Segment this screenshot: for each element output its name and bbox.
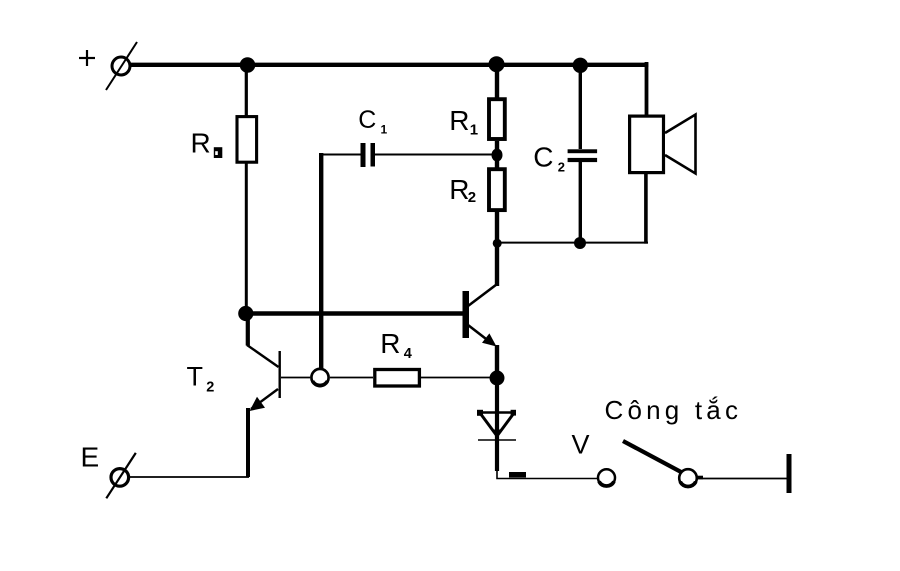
label R2 [449,174,476,206]
node junction bottom C2 [574,237,586,249]
diode D1 [477,410,516,440]
svg-text:2: 2 [558,160,565,175]
terminal end bar [787,454,792,493]
label C1 [358,106,387,136]
wire R4 right [421,377,492,379]
wire R4 left [330,377,373,379]
node junction top R3 [240,57,256,73]
svg-text:2: 2 [206,379,214,395]
wire R3 bottom to node [245,163,248,315]
node junction emitter T1 [490,371,505,386]
wire T1 collector [495,242,499,286]
terminal E circle [106,453,136,498]
wire T2 collector [246,313,250,346]
node junction base T1/T2/R3 [238,306,253,321]
wire speaker bottom [644,174,648,244]
label T2 [187,361,215,395]
wire diode through [495,378,499,471]
resistor R2 [489,169,505,210]
svg-text:T: T [187,361,204,391]
node junction top C2 [573,58,588,73]
svg-text:4: 4 [404,346,412,362]
svg-text:C: C [533,142,553,173]
label R1 [449,105,478,139]
resistor R3 [237,117,257,163]
capacitor C2 [568,149,598,162]
svg-text:2: 2 [468,189,476,206]
svg-text:R: R [449,174,469,205]
wire speaker top [645,62,649,116]
wire T2 emitter down [246,408,250,477]
label C2 [533,142,565,175]
wire R2 bottom [495,212,499,244]
node junction top R1 [489,56,505,72]
svg-text:Công tắc: Công tắc [605,395,743,425]
svg-text:1: 1 [470,122,478,139]
node junction R1-R2 [492,149,503,162]
transistor T1 [463,285,497,347]
wire C2 top [579,62,582,149]
wire R2 top [495,159,499,168]
transistor T2 [247,345,310,411]
resistor R1 [489,99,505,139]
wire bottom rail speaker [497,242,648,244]
wire R1 bottom [495,141,499,151]
wire switch right [696,476,703,480]
wire E to T2 emitter [130,476,249,478]
svg-text:R: R [191,127,211,158]
wire top rail [129,63,648,67]
svg-text:1: 1 [381,122,388,136]
node junction bottom R2 [493,239,502,248]
plus label + [79,50,95,66]
svg-text:E: E [81,441,100,472]
svg-text:R: R [449,105,469,136]
switch lever [623,441,682,473]
wire C1 left [321,154,361,156]
wire R3 top [245,64,248,117]
terminal B+ [106,42,137,90]
capacitor C1 [361,143,376,167]
speaker LS1 [630,115,696,174]
label R4 [380,328,412,362]
node open circle base T2 [311,369,328,386]
resistor R4 [375,370,420,387]
wire T1 emitter [495,345,499,379]
wire C1 right to node A [375,154,494,156]
svg-text:V: V [572,430,590,460]
svg-text:R: R [380,328,400,359]
svg-text:C: C [358,106,376,134]
wire to V terminal [497,470,597,479]
wire base T1 [246,311,463,316]
wire C2 bottom [579,161,582,244]
wire R1 top [495,62,499,98]
terminal V circle [598,469,615,486]
label R3 [191,127,223,158]
switch pole circle [679,469,697,487]
wire C1 drop vertical [319,153,323,368]
minus mark [509,472,526,478]
